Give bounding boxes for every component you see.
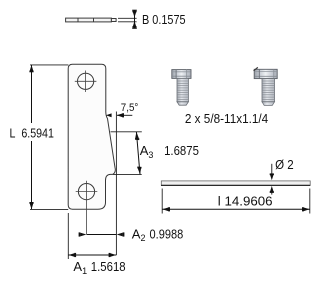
rod body xyxy=(161,181,310,185)
A2 dimension xyxy=(87,234,117,236)
L dimension extension lines xyxy=(30,65,68,210)
l dimension extension lines xyxy=(162,189,310,214)
l dimension line xyxy=(162,208,310,210)
svg-text:7,5°: 7,5° xyxy=(121,102,139,114)
bottom hole crosshair + extension to A2 xyxy=(76,181,98,235)
svg-text:1.5618: 1.5618 xyxy=(91,259,126,274)
svg-text:2 x 5/8-11x1.1/4: 2 x 5/8-11x1.1/4 xyxy=(185,111,268,126)
svg-text:L 6.5941: L 6.5941 xyxy=(10,125,54,140)
A1 dimension: left extension xyxy=(67,213,69,259)
bolt 2 (right) xyxy=(254,67,278,105)
A3 bottom extension line (continues plate step edge) xyxy=(113,173,142,175)
L dimension line xyxy=(31,65,33,210)
B dimension line with outside arrows xyxy=(132,10,137,28)
diameter leader xyxy=(271,164,273,195)
bottom hole xyxy=(78,184,94,200)
B extension lines xyxy=(118,18,137,22)
plate side view body xyxy=(66,18,117,22)
svg-text:1.6875: 1.6875 xyxy=(164,143,199,158)
7,5 degree leader xyxy=(117,114,132,116)
A3 top extension line xyxy=(111,131,142,133)
svg-text:l 14.9606: l 14.9606 xyxy=(218,194,273,209)
svg-text:Ø 2: Ø 2 xyxy=(275,157,294,172)
svg-text:0.9988: 0.9988 xyxy=(150,226,184,241)
bolt 1 (left) xyxy=(172,70,191,106)
svg-text:B 0.1575: B 0.1575 xyxy=(142,12,186,27)
A3 dimension line (tilted) xyxy=(136,132,140,175)
vertical reference/extension line (7.5deg ref, A2/A1 right ext) xyxy=(115,112,117,256)
top hole xyxy=(78,73,94,89)
locking plate outline xyxy=(68,64,115,209)
top hole crosshair xyxy=(75,71,97,93)
